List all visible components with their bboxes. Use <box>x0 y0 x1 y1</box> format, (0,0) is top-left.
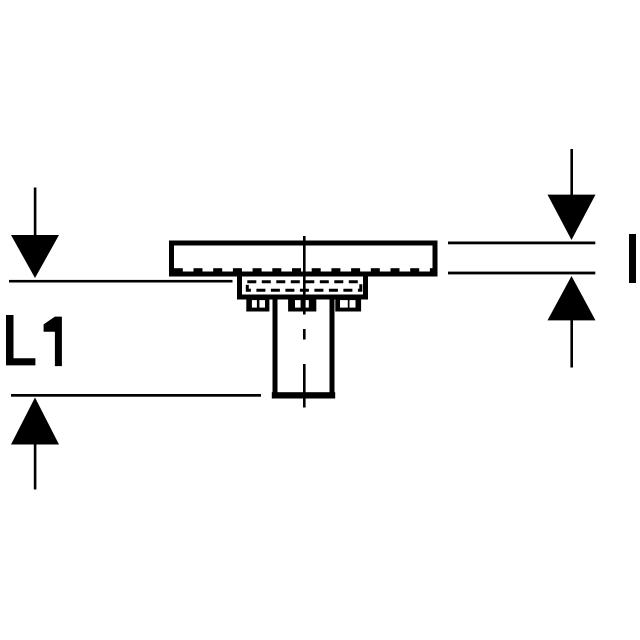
up arrow stem left <box>34 444 37 490</box>
down arrow stem right <box>570 149 573 196</box>
dimension line I bottom right <box>448 272 595 275</box>
flange outline <box>172 243 436 274</box>
foot middle <box>288 296 316 312</box>
up arrowhead left <box>11 398 59 445</box>
pipe right wall <box>330 296 335 396</box>
body outline <box>240 274 366 297</box>
up arrow stem right <box>570 320 573 368</box>
label I <box>629 234 636 283</box>
up arrowhead right <box>548 276 596 320</box>
hidden gasket dashed rectangle <box>247 282 360 291</box>
pipe bottom <box>272 392 335 398</box>
down arrow stem left <box>34 188 37 237</box>
down arrowhead right <box>548 195 596 240</box>
centerline short dash <box>303 329 306 340</box>
centerline long dash <box>303 364 306 408</box>
dimension line L1 bottom <box>11 394 261 397</box>
dimension line I top right <box>448 242 595 245</box>
foot left <box>246 296 269 312</box>
pipe left wall <box>273 296 278 396</box>
down arrowhead left <box>11 235 59 278</box>
foot right <box>335 296 361 312</box>
grate teeth <box>174 268 433 272</box>
label L1 <box>6 315 35 365</box>
centerline solid segment <box>303 236 306 315</box>
dimension line L1 top <box>9 280 233 283</box>
